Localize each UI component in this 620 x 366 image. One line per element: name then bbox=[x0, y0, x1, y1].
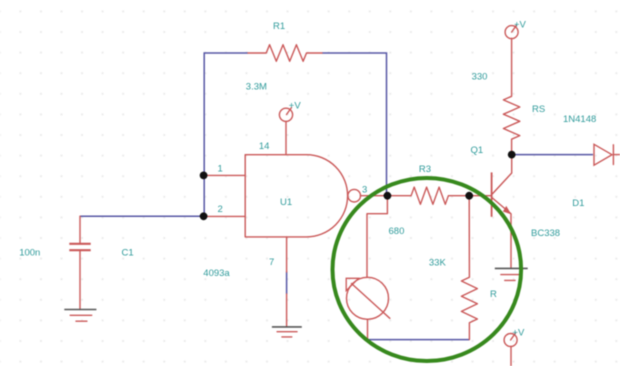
svg-text:680: 680 bbox=[389, 226, 405, 237]
svg-text:33K: 33K bbox=[429, 258, 447, 269]
svg-text:C1: C1 bbox=[122, 248, 134, 259]
svg-text:1: 1 bbox=[218, 164, 223, 175]
svg-text:4093a: 4093a bbox=[203, 268, 230, 279]
svg-text:R: R bbox=[490, 289, 497, 300]
svg-text:+V: +V bbox=[512, 328, 525, 339]
svg-text:3: 3 bbox=[362, 184, 367, 195]
svg-text:2: 2 bbox=[218, 204, 223, 215]
svg-text:3.3M: 3.3M bbox=[246, 82, 267, 93]
svg-text:14: 14 bbox=[259, 141, 270, 152]
svg-text:100n: 100n bbox=[19, 248, 40, 259]
svg-text:7: 7 bbox=[269, 257, 274, 268]
svg-text:Q1: Q1 bbox=[471, 145, 484, 156]
svg-text:R3: R3 bbox=[419, 164, 431, 175]
svg-text:1N4148: 1N4148 bbox=[563, 114, 596, 125]
svg-text:BC338: BC338 bbox=[531, 228, 560, 239]
svg-text:U1: U1 bbox=[280, 197, 292, 208]
svg-text:RS: RS bbox=[532, 104, 545, 115]
svg-text:D1: D1 bbox=[572, 198, 584, 209]
svg-text:R1: R1 bbox=[273, 21, 285, 32]
svg-text:330: 330 bbox=[472, 72, 488, 83]
svg-text:+V: +V bbox=[514, 20, 527, 31]
svg-text:+V: +V bbox=[289, 101, 302, 112]
